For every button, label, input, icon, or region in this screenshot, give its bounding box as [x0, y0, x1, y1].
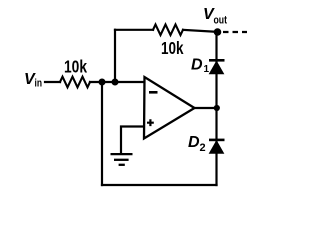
svg-text:1: 1: [204, 64, 210, 75]
svg-text:D: D: [188, 134, 200, 151]
svg-text:2: 2: [200, 142, 206, 154]
svg-text:D: D: [191, 57, 203, 74]
svg-text:10k: 10k: [161, 38, 184, 58]
svg-text:in: in: [35, 78, 43, 90]
svg-text:10k: 10k: [64, 57, 87, 77]
svg-text:out: out: [214, 15, 228, 27]
